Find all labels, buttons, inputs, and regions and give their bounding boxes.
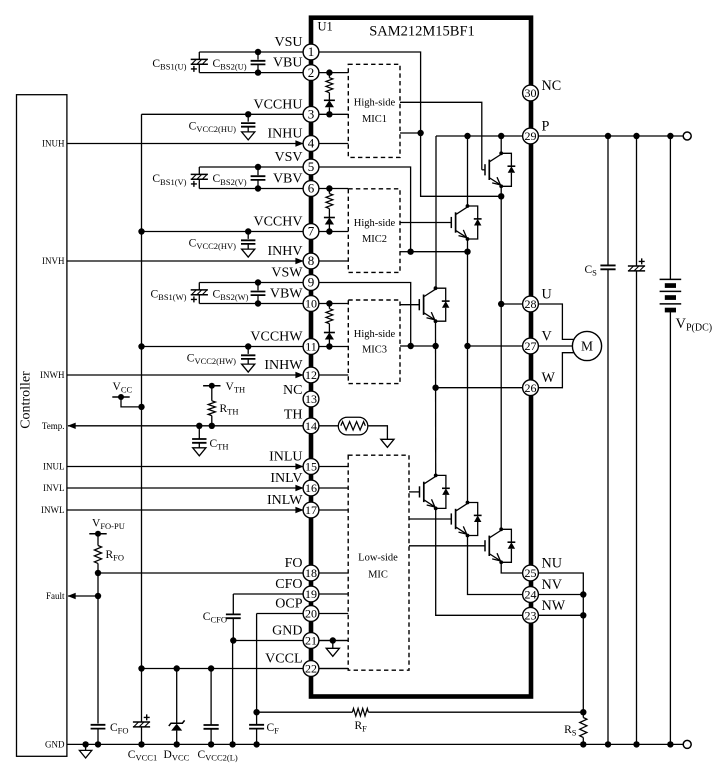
bootstrap resistor+diode V phase bbox=[311, 188, 348, 190]
wire V output to pin 27 bbox=[468, 345, 531, 347]
svg-text:28: 28 bbox=[525, 297, 537, 311]
wire VSU from pin 1 to U emitter node bbox=[311, 52, 501, 196]
svg-text:VSW: VSW bbox=[271, 266, 303, 281]
svg-text:MIC2: MIC2 bbox=[362, 234, 387, 245]
capacitor C_BS2(V) bbox=[257, 167, 259, 189]
wire VSW row bbox=[199, 282, 303, 284]
thermistor TH bbox=[338, 417, 368, 435]
svg-text:CFO: CFO bbox=[275, 577, 302, 592]
pin 3 bbox=[303, 106, 319, 122]
pin 29 bbox=[523, 128, 539, 144]
wire MIC1 gate feed bbox=[400, 102, 482, 170]
wire low-side U emitter to pin 25 bbox=[501, 562, 530, 573]
svg-text:VSV: VSV bbox=[274, 150, 302, 165]
junction VCCL / D_VCC bbox=[174, 665, 180, 671]
capacitor C_F bbox=[256, 712, 258, 724]
svg-text:VSU: VSU bbox=[274, 35, 302, 50]
wire U output to pin 28 bbox=[501, 303, 530, 305]
svg-text:MIC1: MIC1 bbox=[362, 114, 387, 125]
svg-text:Temp.: Temp. bbox=[42, 421, 65, 431]
svg-text:VCCHW: VCCHW bbox=[250, 330, 303, 345]
svg-text:11: 11 bbox=[305, 340, 317, 354]
node VCC bus vertical bbox=[141, 114, 143, 668]
junction VSW / W output column bbox=[432, 343, 438, 349]
junction VCC bus / VCC entry bbox=[138, 404, 144, 410]
junction MIC3 VS / VSW column bbox=[408, 343, 414, 349]
transistor high-side V IGBT bbox=[400, 222, 451, 224]
svg-text:INHW: INHW bbox=[264, 358, 303, 373]
svg-text:29: 29 bbox=[525, 129, 537, 143]
wire pin 15 stub into Low-side MIC box bbox=[311, 466, 348, 468]
capacitor C_BS2(W) bbox=[257, 283, 259, 304]
svg-text:INVH: INVH bbox=[42, 256, 65, 266]
svg-text:VBV: VBV bbox=[273, 172, 303, 187]
svg-text:VCCHU: VCCHU bbox=[253, 97, 302, 112]
svg-text:2: 2 bbox=[308, 65, 315, 80]
svg-text:VCCL: VCCL bbox=[265, 652, 302, 667]
svg-text:P: P bbox=[542, 119, 550, 135]
wire Fault to controller bbox=[68, 573, 98, 596]
svg-text:High-side: High-side bbox=[354, 98, 396, 109]
wire pin 21 stub into Low-side MIC box bbox=[311, 640, 348, 642]
junction MIC1 VS / VSU column bbox=[417, 130, 423, 136]
wire thermistor to ground bbox=[368, 426, 388, 440]
pin 30 bbox=[523, 85, 539, 101]
svg-text:U1: U1 bbox=[318, 20, 333, 34]
svg-text:5: 5 bbox=[308, 159, 315, 174]
svg-text:4: 4 bbox=[308, 136, 315, 151]
wire VCCL row pin 22 bbox=[142, 668, 349, 670]
svg-text:26: 26 bbox=[525, 381, 537, 395]
wire VSU row bbox=[199, 51, 303, 53]
High-side MIC1 box bbox=[348, 64, 400, 157]
svg-text:INWL: INWL bbox=[41, 505, 65, 515]
junction VCC bus / VCCL bbox=[138, 665, 144, 671]
junction V output / pin 27 bbox=[464, 343, 470, 349]
wire Temp. from pin 14 TH to controller bbox=[68, 425, 304, 427]
svg-text:23: 23 bbox=[525, 609, 537, 623]
capacitor electrolytic smoothing bbox=[636, 136, 638, 266]
junction NV bbox=[580, 591, 586, 597]
svg-text:Low-side: Low-side bbox=[358, 553, 398, 564]
pin 2 bbox=[303, 65, 319, 81]
pin 25 bbox=[523, 565, 539, 581]
wire FO row to pin 18 bbox=[95, 570, 101, 576]
wire VCCHV row bbox=[142, 231, 304, 233]
wire MIC1 VS stub bbox=[400, 132, 421, 134]
ground at N rail bbox=[85, 744, 87, 750]
transistor high-side U IGBT bbox=[482, 169, 485, 171]
svg-text:NC: NC bbox=[283, 383, 302, 398]
wire P to high-side V collector bbox=[467, 136, 469, 206]
wire CFO row pin 19 bbox=[233, 593, 303, 595]
wire VCCHU row bbox=[142, 113, 304, 115]
wire MIC2 VS stub bbox=[400, 251, 411, 253]
wire P rail inside IC bbox=[436, 135, 531, 137]
svg-text:MIC3: MIC3 bbox=[362, 345, 387, 356]
wire P to high-side U collector bbox=[500, 136, 502, 153]
junction N rail bbox=[208, 741, 214, 747]
junction VCCL / C_VCC2(L) bbox=[208, 665, 214, 671]
junction NW bbox=[580, 612, 586, 618]
supply VCC bbox=[112, 396, 129, 398]
svg-text:INHV: INHV bbox=[268, 244, 303, 259]
svg-text:W: W bbox=[542, 370, 556, 386]
junction N rail bbox=[253, 741, 259, 747]
wire VSV from pin 5 bbox=[311, 167, 468, 252]
pin 7 bbox=[303, 224, 319, 240]
svg-text:3: 3 bbox=[308, 107, 315, 122]
pin 11 bbox=[303, 339, 319, 355]
transistor low-side W IGBT bbox=[409, 491, 420, 493]
svg-text:SAM212M15BF1: SAM212M15BF1 bbox=[369, 24, 475, 40]
wire GND net down to rail bbox=[232, 641, 234, 745]
ground below C_TH bbox=[193, 448, 206, 456]
junction N rail bbox=[633, 741, 639, 747]
capacitor C_FO bbox=[97, 596, 99, 724]
pin 23 bbox=[523, 607, 539, 623]
junction N rail bbox=[605, 741, 611, 747]
svg-text:25: 25 bbox=[525, 566, 537, 580]
capacitor C_VCC1 electrolytic bbox=[141, 669, 143, 722]
wire pin 8 stub into MIC box bbox=[311, 260, 348, 262]
svg-text:NC: NC bbox=[542, 78, 562, 94]
svg-text:27: 27 bbox=[525, 339, 537, 353]
pin 13 bbox=[303, 391, 319, 407]
High-side MIC3 box bbox=[348, 300, 400, 384]
svg-text:15: 15 bbox=[305, 460, 317, 474]
svg-text:VBW: VBW bbox=[270, 287, 303, 302]
svg-text:1: 1 bbox=[308, 44, 315, 59]
pin 14 bbox=[303, 418, 319, 434]
svg-text:U: U bbox=[542, 287, 552, 303]
transistor low-side U IGBT bbox=[409, 545, 485, 547]
junction Fault node bbox=[95, 593, 101, 599]
wire N rail bottom bbox=[67, 743, 683, 745]
terminal P bbox=[683, 132, 691, 140]
svg-text:INLW: INLW bbox=[267, 493, 303, 508]
transistor low-side V IGBT bbox=[409, 518, 451, 520]
wire pin 16 stub into Low-side MIC box bbox=[311, 487, 348, 489]
junction U emitter node bbox=[498, 193, 504, 199]
pin 9 bbox=[303, 275, 319, 291]
svg-text:10: 10 bbox=[305, 297, 317, 311]
svg-text:VBU: VBU bbox=[273, 56, 303, 71]
resistor R_TH bbox=[211, 386, 213, 401]
wire pin 4 stub into MIC box bbox=[311, 143, 348, 145]
wire pin 14 to thermistor bbox=[311, 425, 338, 427]
junction N rail bbox=[82, 741, 88, 747]
junction N rail bbox=[667, 741, 673, 747]
svg-text:INLU: INLU bbox=[269, 450, 302, 465]
svg-text:M: M bbox=[581, 339, 593, 354]
capacitor C_VCC2(HU) bbox=[245, 111, 251, 117]
junction C_CFO / GND row bbox=[230, 637, 236, 643]
capacitor C_BS1(U) electrolytic bbox=[198, 52, 200, 59]
svg-text:13: 13 bbox=[305, 392, 317, 406]
svg-text:8: 8 bbox=[308, 253, 315, 268]
junction N rail bbox=[580, 741, 586, 747]
junction N rail bbox=[229, 741, 235, 747]
junction N rail bbox=[174, 741, 180, 747]
junction OCP / R_F row bbox=[253, 709, 259, 715]
motor M bbox=[531, 304, 574, 339]
controller box bbox=[17, 95, 67, 757]
wire VBU row bbox=[199, 72, 303, 74]
junction P rail bbox=[667, 133, 673, 139]
wire pin 20 stub into Low-side MIC box bbox=[311, 613, 348, 615]
svg-text:INHU: INHU bbox=[268, 127, 303, 142]
wire W output column bbox=[435, 320, 437, 475]
pin 4 bbox=[303, 136, 319, 152]
wire VSW from pin 9 bbox=[311, 283, 436, 347]
wire MIC3 VS stub bbox=[400, 345, 411, 347]
wire P to high-side W collector bbox=[435, 136, 437, 288]
svg-text:12: 12 bbox=[305, 368, 317, 382]
capacitor C_S bbox=[607, 136, 609, 265]
junction C_BS2(V) top bbox=[255, 164, 261, 170]
pin 26 bbox=[523, 380, 539, 396]
supply V_FO-PU bbox=[89, 533, 106, 535]
junction C_BS2(U) bottom bbox=[255, 69, 261, 75]
svg-text:High-side: High-side bbox=[354, 218, 396, 229]
svg-text:TH: TH bbox=[284, 408, 303, 423]
svg-text:30: 30 bbox=[525, 86, 537, 100]
wire OCP row pin 20 bbox=[257, 613, 304, 615]
svg-text:19: 19 bbox=[305, 587, 317, 601]
svg-text:20: 20 bbox=[305, 607, 317, 621]
supply V_TH bbox=[203, 385, 220, 387]
svg-text:17: 17 bbox=[305, 503, 317, 517]
svg-text:INUH: INUH bbox=[42, 139, 65, 149]
svg-text:NW: NW bbox=[542, 598, 566, 614]
capacitor C_VCC2(L) bbox=[210, 669, 212, 725]
junction VCC bus / VCCHW bbox=[138, 343, 144, 349]
svg-text:GND: GND bbox=[272, 624, 302, 639]
wire pin 17 stub into Low-side MIC box bbox=[311, 509, 348, 511]
junction N rail bbox=[138, 741, 144, 747]
svg-text:INVL: INVL bbox=[43, 483, 65, 493]
pin 12 bbox=[303, 367, 319, 383]
ground after thermistor bbox=[381, 439, 394, 447]
pin 19 bbox=[303, 586, 319, 602]
wire VSV row bbox=[199, 166, 303, 168]
pin 15 bbox=[303, 459, 319, 475]
wire GND row pin 21 bbox=[233, 640, 348, 642]
junction P / IGBT2 feed bbox=[464, 133, 470, 139]
pin 5 bbox=[303, 159, 319, 175]
junction C_BS2(V) bottom bbox=[255, 185, 261, 191]
capacitor C_CFO bbox=[232, 594, 234, 614]
wire VCC to bus bbox=[121, 397, 142, 407]
svg-text:High-side: High-side bbox=[354, 329, 396, 340]
junction P / IGBT1 feed bbox=[498, 133, 504, 139]
wire pin 12 stub into MIC box bbox=[311, 374, 348, 376]
wire pin 18 stub into Low-side MIC box bbox=[311, 572, 348, 574]
pin 28 bbox=[523, 296, 539, 312]
wire V output column bbox=[467, 239, 469, 503]
pin 1 bbox=[303, 44, 319, 60]
terminal N bbox=[683, 740, 691, 748]
bootstrap resistor+diode W phase bbox=[311, 303, 348, 305]
junction P rail bbox=[605, 133, 611, 139]
svg-text:OCP: OCP bbox=[275, 597, 302, 612]
junction N rail bbox=[95, 741, 101, 747]
pin 21 bbox=[303, 633, 319, 649]
capacitor C_VCC2(HV) bbox=[245, 228, 251, 234]
ground below C_VCC2(HU) bbox=[242, 132, 255, 140]
junction VCC bus / VCCHV bbox=[138, 228, 144, 234]
pin 17 bbox=[303, 502, 319, 518]
junction N / R_F row bbox=[580, 709, 586, 715]
wire INLU controller to pin bbox=[67, 466, 303, 468]
wire INUH controller to pin bbox=[67, 143, 303, 145]
pin 27 bbox=[523, 338, 539, 354]
pin 10 bbox=[303, 296, 319, 312]
svg-text:14: 14 bbox=[305, 419, 317, 433]
capacitor C_BS1(V) electrolytic bbox=[198, 167, 200, 174]
pin 16 bbox=[303, 480, 319, 496]
pin 22 bbox=[303, 661, 319, 677]
svg-text:21: 21 bbox=[305, 634, 317, 648]
junction VSV / V output column bbox=[464, 249, 470, 255]
wire INVH controller to pin bbox=[67, 260, 303, 262]
svg-text:22: 22 bbox=[305, 662, 317, 676]
wire U output column bbox=[500, 186, 502, 529]
junction C_BS2(W) top bbox=[255, 279, 261, 285]
wire low-side W emitter to pin 23 bbox=[436, 508, 531, 615]
wire INLV controller to pin bbox=[67, 487, 303, 489]
resistor R_FO bbox=[97, 534, 99, 546]
svg-text:Fault: Fault bbox=[46, 591, 65, 601]
svg-text:NV: NV bbox=[542, 577, 563, 593]
svg-text:INLV: INLV bbox=[270, 471, 302, 486]
svg-text:FO: FO bbox=[285, 556, 303, 571]
svg-text:MIC: MIC bbox=[368, 570, 388, 581]
capacitor C_VCC2(HW) bbox=[245, 343, 251, 349]
wire pin 22 stub into Low-side MIC box bbox=[311, 668, 348, 670]
resistor R_S bbox=[582, 712, 584, 717]
wire OCP net down to R_F row bbox=[256, 614, 258, 713]
battery V_P(DC) bbox=[669, 136, 671, 279]
svg-text:18: 18 bbox=[305, 566, 317, 580]
pin 6 bbox=[303, 181, 319, 197]
wire pin 19 stub into Low-side MIC box bbox=[311, 593, 348, 595]
svg-text:GND: GND bbox=[45, 740, 65, 750]
wire low-side V emitter to pin 24 bbox=[468, 536, 531, 595]
svg-text:INUL: INUL bbox=[43, 462, 65, 472]
pin 18 bbox=[303, 565, 319, 581]
High-side MIC2 box bbox=[348, 189, 400, 273]
capacitor C_BS2(U) bbox=[257, 52, 259, 73]
svg-text:V: V bbox=[542, 329, 553, 345]
wire VBV row bbox=[199, 188, 303, 190]
junction MIC2 VS / VSV column bbox=[407, 249, 413, 255]
junction R_TH / TH wire bbox=[209, 423, 215, 429]
wire VBW row bbox=[199, 303, 303, 305]
ground below C_VCC2(HW) bbox=[242, 364, 255, 372]
ground below C_VCC2(HV) bbox=[242, 249, 255, 257]
zener diode D_VCC bbox=[176, 669, 178, 724]
pin 20 bbox=[303, 606, 319, 622]
junction GND pin ground stub bbox=[330, 637, 336, 643]
svg-text:7: 7 bbox=[308, 224, 315, 239]
junction U output / pin 28 bbox=[498, 301, 504, 307]
bootstrap resistor+diode U phase bbox=[311, 72, 348, 74]
wire INWH controller to pin bbox=[67, 374, 303, 376]
junction W output / pin 26 bbox=[432, 385, 438, 391]
junction C_BS2(U) top bbox=[255, 49, 261, 55]
capacitor C_BS1(W) electrolytic bbox=[198, 283, 200, 290]
svg-text:16: 16 bbox=[305, 481, 317, 495]
wire VCCHW row bbox=[142, 346, 304, 348]
junction P rail bbox=[633, 133, 639, 139]
junction C_BS2(W) bottom bbox=[255, 300, 261, 306]
svg-text:INWH: INWH bbox=[40, 370, 65, 380]
svg-text:VCCHV: VCCHV bbox=[253, 215, 302, 230]
ground at pin 21 bbox=[332, 641, 334, 649]
pin 24 bbox=[523, 587, 539, 603]
Low-side MIC box bbox=[348, 455, 409, 670]
wire NU/NV/NW common bbox=[531, 573, 584, 712]
svg-text:24: 24 bbox=[525, 588, 537, 602]
svg-text:Controller: Controller bbox=[19, 371, 34, 429]
pin 8 bbox=[303, 253, 319, 269]
svg-text:NU: NU bbox=[542, 556, 563, 572]
IC U1 outline bbox=[311, 18, 531, 697]
svg-text:6: 6 bbox=[308, 181, 315, 196]
wire P rail external bbox=[531, 135, 684, 137]
wire W output to pin 26 bbox=[436, 387, 531, 389]
capacitor C_TH bbox=[196, 423, 202, 429]
transistor high-side W IGBT bbox=[400, 304, 419, 306]
resistor R_F bbox=[257, 711, 353, 713]
wire INLW controller to pin bbox=[67, 509, 303, 511]
svg-text:9: 9 bbox=[308, 275, 315, 290]
